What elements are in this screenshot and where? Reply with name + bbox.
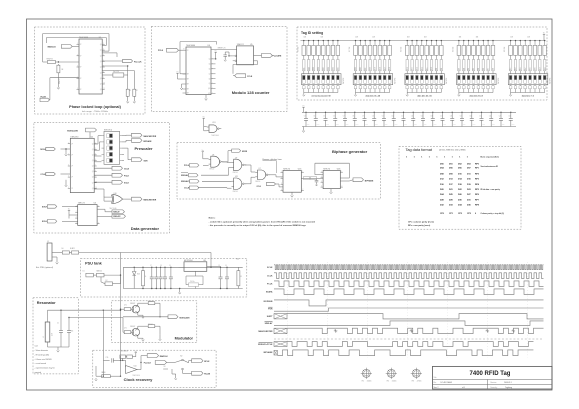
svg-text:MANCHESTER: MANCHESTER xyxy=(144,199,157,202)
svg-text:MODULATE: MODULATE xyxy=(67,129,78,132)
svg-text:BIPHASE: BIPHASE xyxy=(365,179,374,182)
svg-text:Q7: Q7 xyxy=(100,84,102,86)
svg-text:100n: 100n xyxy=(404,124,407,126)
svg-text:Revision:: Revision: xyxy=(491,382,498,384)
svg-text:ID-4: ID-4 xyxy=(525,67,527,70)
svg-text:MANCLK: MANCLK xyxy=(48,46,57,49)
svg-text:Q8: Q8 xyxy=(92,188,94,190)
svg-text:Clock recovery: Clock recovery xyxy=(124,377,153,382)
svg-text:CP: CP xyxy=(80,67,82,69)
svg-text:ID9: ID9 xyxy=(436,68,438,70)
svg-text:1k8: 1k8 xyxy=(321,37,324,39)
svg-text:CP: CP xyxy=(71,155,73,157)
svg-text:100n: 100n xyxy=(453,124,456,126)
svg-text:R16 1k8: R16 1k8 xyxy=(297,47,299,52)
svg-text:RPx = row parity (even): RPx = row parity (even) xyxy=(408,224,431,227)
svg-text:Tag ID setting: Tag ID setting xyxy=(301,31,323,35)
svg-text:1k8: 1k8 xyxy=(355,37,358,39)
svg-text:SDELAY: SDELAY xyxy=(265,322,274,325)
svg-text:74HC00: 74HC00 xyxy=(233,191,238,193)
svg-text:Q3: Q3 xyxy=(100,61,102,63)
svg-text:R18 1k8: R18 1k8 xyxy=(401,47,403,52)
svg-text:4.7k: 4.7k xyxy=(124,305,127,307)
svg-text:74HC00: 74HC00 xyxy=(255,181,260,183)
svg-text:MCP1804: MCP1804 xyxy=(184,260,192,262)
svg-text:74HC1G00: 74HC1G00 xyxy=(211,135,219,137)
svg-text:100n: 100n xyxy=(317,124,320,126)
svg-text:CP: CP xyxy=(71,177,73,179)
svg-text:PCLK: PCLK xyxy=(267,283,273,285)
svg-text:Q4: Q4 xyxy=(100,67,102,69)
svg-text:868 R3: 868 R3 xyxy=(148,301,153,303)
svg-text:MODSUB: MODSUB xyxy=(264,301,273,303)
svg-text:SW DIP-8: SW DIP-8 xyxy=(550,78,552,84)
svg-text:SW DIP-8: SW DIP-8 xyxy=(446,78,448,84)
svg-text:ID-2: ID-2 xyxy=(515,67,517,70)
svg-text:BLM21: BLM21 xyxy=(70,248,75,250)
svg-text:Coil:: Coil: xyxy=(35,346,39,348)
svg-text:Vcc: Vcc xyxy=(302,106,305,108)
svg-text:ID0: ID0 xyxy=(493,68,495,70)
svg-text:VN10LP: VN10LP xyxy=(130,303,135,305)
svg-text:ID4: ID4 xyxy=(473,68,475,70)
svg-text:U8: U8 xyxy=(212,154,214,156)
svg-text:CP: CP xyxy=(71,143,73,145)
svg-text:868 R4: 868 R4 xyxy=(148,324,153,326)
svg-text:ID22: ID22 xyxy=(360,67,362,70)
svg-text:MODULATE: MODULATE xyxy=(180,316,191,319)
svg-text:Vcc: Vcc xyxy=(202,150,205,152)
svg-text:Burst sequence (8x1): Burst sequence (8x1) xyxy=(481,156,500,159)
svg-text:SDATA: SDATA xyxy=(266,290,273,293)
svg-text:ID-3: ID-3 xyxy=(520,67,522,70)
svg-text:74HC74: 74HC74 xyxy=(323,168,330,170)
svg-text:BIPHASE: BIPHASE xyxy=(144,140,153,143)
svg-text:ID26: ID26 xyxy=(328,67,330,70)
svg-text:H3: H3 xyxy=(412,381,414,383)
svg-text:MR: MR xyxy=(187,74,189,76)
svg-text:R1: R1 xyxy=(129,90,131,92)
svg-text:ID13: ID13 xyxy=(417,67,419,70)
svg-text:ID7: ID7 xyxy=(459,68,461,70)
svg-text:PLLEN: PLLEN xyxy=(204,374,211,376)
svg-text:Data generator: Data generator xyxy=(131,226,160,231)
svg-text:Vcc: Vcc xyxy=(215,51,218,53)
svg-text:PLLCLK: PLLCLK xyxy=(134,61,142,63)
svg-text:74HC1G14: 74HC1G14 xyxy=(132,375,140,377)
svg-text:MRSET_IN: MRSET_IN xyxy=(218,48,226,50)
svg-text:SW DIP-8: SW DIP-8 xyxy=(343,78,345,84)
svg-text:Vcc: Vcc xyxy=(176,72,179,74)
svg-text:lock range: ~75kHz..135kHz: lock range: ~75kHz..135kHz xyxy=(82,110,108,113)
svg-text:C7: C7 xyxy=(150,265,152,267)
svg-text:1k8: 1k8 xyxy=(510,37,513,39)
svg-text:ID11: ID11 xyxy=(426,67,428,70)
svg-text:ID29: ID29 xyxy=(313,67,315,70)
svg-text:Q6: Q6 xyxy=(209,68,211,70)
svg-text:100n: 100n xyxy=(326,124,329,126)
svg-text:CCLK: CCLK xyxy=(247,76,253,78)
svg-text:100n: 100n xyxy=(443,124,446,126)
svg-text:C24: C24 xyxy=(508,116,511,118)
svg-text:100n: 100n xyxy=(356,124,359,126)
svg-text:Q5: Q5 xyxy=(92,171,94,173)
svg-text:PLLGATE: PLLGATE xyxy=(273,55,282,58)
svg-text:U16: U16 xyxy=(298,168,301,170)
svg-text:74HC4060: 74HC4060 xyxy=(186,45,195,47)
svg-text:CP: CP xyxy=(187,50,189,52)
svg-text:ID17: ID17 xyxy=(384,67,386,70)
svg-text:ID-8: ID-8 xyxy=(544,67,546,70)
svg-text:CPx = column parity (even): CPx = column parity (even) xyxy=(408,221,434,224)
svg-text:PLLCLK: PLLCLK xyxy=(144,362,152,364)
svg-text:ID5: ID5 xyxy=(468,68,470,70)
svg-text:Q5: Q5 xyxy=(100,72,102,74)
svg-text:100n: 100n xyxy=(424,124,427,126)
svg-text:Notes:: Notes: xyxy=(209,217,216,220)
svg-text:S2: S2 xyxy=(180,355,182,357)
svg-text:Vcc: Vcc xyxy=(543,33,546,35)
svg-text:C16: C16 xyxy=(430,116,433,118)
svg-text:100n: 100n xyxy=(463,124,466,126)
svg-text:Size: 2: Size: 2 xyxy=(434,387,439,389)
svg-text:C15: C15 xyxy=(106,357,109,359)
svg-text:CP: CP xyxy=(80,78,82,80)
svg-text:Q0: Q0 xyxy=(100,44,102,46)
svg-text:ID12: ID12 xyxy=(421,67,423,70)
svg-text:U06: U06 xyxy=(337,168,340,170)
svg-text:- the prescaler is normally se: - the prescaler is normally set to outpu… xyxy=(209,224,307,227)
svg-text:Q2: Q2 xyxy=(100,55,102,57)
svg-text:100n: 100n xyxy=(473,124,476,126)
svg-text:Q4: Q4 xyxy=(92,166,94,168)
svg-text:1k8: 1k8 xyxy=(527,37,530,39)
svg-text:74HC00: 74HC00 xyxy=(209,169,214,171)
svg-text:Vcc: Vcc xyxy=(135,351,138,353)
svg-text:R17 1k8: R17 1k8 xyxy=(349,47,351,52)
svg-text:data bits 7..0: data bits 7..0 xyxy=(522,95,535,98)
svg-text:MANCHESTER: MANCHESTER xyxy=(258,330,273,333)
svg-text:ID23: ID23 xyxy=(355,67,357,70)
svg-text:ID18: ID18 xyxy=(379,67,381,70)
svg-text:D1: D1 xyxy=(83,271,85,273)
svg-text:ID31: ID31 xyxy=(303,67,305,70)
svg-text:SCLK: SCLK xyxy=(124,183,130,185)
svg-text:MR: MR xyxy=(187,79,189,81)
svg-text:SDELAY+PCLK: SDELAY+PCLK xyxy=(258,343,273,346)
svg-text:C19: C19 xyxy=(460,116,463,118)
svg-text:Q7: Q7 xyxy=(92,182,94,184)
svg-text:SDELAY2: SDELAY2 xyxy=(181,180,190,183)
svg-text:ID21: ID21 xyxy=(365,67,367,70)
svg-text:C21: C21 xyxy=(479,116,482,118)
svg-text:1k8: 1k8 xyxy=(424,37,427,39)
svg-text:MR: MR xyxy=(187,84,189,86)
svg-text:DC-4FC-RA-03: DC-4FC-RA-03 xyxy=(441,381,453,384)
svg-text:SCLK: SCLK xyxy=(42,221,48,223)
svg-text:SW DIP-8: SW DIP-8 xyxy=(395,78,397,84)
svg-text:ID15: ID15 xyxy=(407,67,409,70)
svg-text:BIPHASE: BIPHASE xyxy=(264,351,274,354)
svg-text:PCLK: PCLK xyxy=(158,50,164,52)
svg-text:3n0 C10: 3n0 C10 xyxy=(113,71,119,73)
svg-text:100n: 100n xyxy=(492,124,495,126)
svg-text:ID28: ID28 xyxy=(318,67,320,70)
svg-text:Q4: Q4 xyxy=(209,59,211,61)
svg-text:MANCHESTER: MANCHESTER xyxy=(144,135,157,138)
svg-text:R19 1k8: R19 1k8 xyxy=(452,47,454,52)
svg-text:74HC1G86: 74HC1G86 xyxy=(109,208,117,210)
svg-text:- 89 windings (4B): - 89 windings (4B) xyxy=(35,354,50,356)
svg-text:Q9: Q9 xyxy=(209,83,211,85)
svg-text:MODE: MODE xyxy=(242,151,248,153)
svg-text:Ext. PSU (optional): Ext. PSU (optional) xyxy=(36,266,53,269)
svg-text:Q0: Q0 xyxy=(92,143,94,145)
svg-text:100n C2: 100n C2 xyxy=(59,79,61,84)
svg-text:SW DIP-4: SW DIP-4 xyxy=(104,129,112,131)
svg-text:R20 1k8: R20 1k8 xyxy=(504,47,506,52)
svg-text:ID-5: ID-5 xyxy=(530,67,532,70)
svg-text:C23: C23 xyxy=(499,116,502,118)
svg-text:Q8: Q8 xyxy=(100,89,102,91)
svg-text:ID20: ID20 xyxy=(370,67,372,70)
svg-text:BZX: BZX xyxy=(137,274,140,276)
svg-text:Q6: Q6 xyxy=(100,78,102,80)
svg-text:74HC74: 74HC74 xyxy=(283,168,290,170)
svg-text:U13: U13 xyxy=(212,122,215,124)
svg-text:ID8: ID8 xyxy=(441,68,443,70)
svg-text:100n: 100n xyxy=(336,124,339,126)
svg-text:Prescaler: Prescaler xyxy=(135,146,153,151)
svg-text:ID2: ID2 xyxy=(483,68,485,70)
svg-text:ID bit data + row parity: ID bit data + row parity xyxy=(481,188,500,191)
svg-text:Modulo 128 counter: Modulo 128 counter xyxy=(232,90,270,95)
svg-text:C14 1u: C14 1u xyxy=(190,281,195,283)
svg-text:C22: C22 xyxy=(489,116,492,118)
svg-text:Q7: Q7 xyxy=(209,73,211,75)
svg-text:L1: L1 xyxy=(43,336,45,338)
svg-text:H2: H2 xyxy=(387,381,389,383)
svg-text:Version/customer ID: Version/customer ID xyxy=(481,165,499,168)
svg-text:100n: 100n xyxy=(502,124,505,126)
svg-text:4.7mm: 4.7mm xyxy=(417,381,422,383)
svg-text:C15: C15 xyxy=(421,116,424,118)
svg-text:100n: 100n xyxy=(307,124,310,126)
svg-text:Column parity + stop bit (0): Column parity + stop bit (0) xyxy=(481,212,505,215)
svg-text:ID14: ID14 xyxy=(412,67,414,70)
svg-text:Q11: Q11 xyxy=(208,93,211,95)
svg-text:Vcc: Vcc xyxy=(68,209,71,211)
svg-text:required: required xyxy=(35,372,42,374)
svg-text:3.2mm: 3.2mm xyxy=(392,381,397,383)
svg-text:Vcc: Vcc xyxy=(203,117,206,119)
svg-text:100n: 100n xyxy=(414,124,417,126)
svg-text:VN10LP: VN10LP xyxy=(130,326,135,328)
svg-text:Biphase generator: Biphase generator xyxy=(332,149,368,154)
svg-text:C6: C6 xyxy=(225,265,227,267)
svg-text:PCLK: PCLK xyxy=(124,176,130,178)
svg-text:Resonator: Resonator xyxy=(37,301,56,305)
svg-text:ID24: ID24 xyxy=(337,67,339,70)
svg-text:- experimentation may be: - experimentation may be xyxy=(35,367,55,370)
svg-text:S3: S3 xyxy=(164,366,166,368)
svg-text:- 0.4mm wire SWG26: - 0.4mm wire SWG26 xyxy=(35,359,52,361)
svg-text:C20: C20 xyxy=(469,116,472,118)
svg-text:1mH: 1mH xyxy=(52,333,54,336)
svg-text:Q5: Q5 xyxy=(209,64,211,66)
svg-text:(32 bits, MSB first; D00 = MSB: (32 bits, MSB first; D00 = MSB) xyxy=(439,148,466,151)
svg-text:U11: U11 xyxy=(235,176,238,178)
svg-text:Tag data format: Tag data format xyxy=(406,148,433,152)
svg-text:U14: U14 xyxy=(134,366,137,368)
svg-text:data bits 15..8: data bits 15..8 xyxy=(469,95,483,98)
svg-text:1k8: 1k8 xyxy=(372,37,375,39)
svg-text:POR: POR xyxy=(268,309,273,311)
svg-text:MCLK: MCLK xyxy=(204,361,210,363)
svg-text:Q3: Q3 xyxy=(92,160,94,162)
svg-text:CP: CP xyxy=(71,166,73,168)
svg-text:Q1: Q1 xyxy=(92,149,94,151)
svg-text:ID30: ID30 xyxy=(308,67,310,70)
svg-text:ID19: ID19 xyxy=(375,67,377,70)
svg-text:- round wound: - round wound xyxy=(35,363,47,365)
svg-text:U9: U9 xyxy=(235,157,237,159)
svg-text:CP: CP xyxy=(71,188,73,190)
svg-text:Q10: Q10 xyxy=(208,88,211,90)
svg-text:C13: C13 xyxy=(401,116,404,118)
svg-text:74HC590: 74HC590 xyxy=(70,136,78,138)
svg-text:100n: 100n xyxy=(395,124,398,126)
svg-text:U3: U3 xyxy=(94,203,96,205)
svg-text:C5: C5 xyxy=(218,265,220,267)
svg-text:Q6: Q6 xyxy=(92,177,94,179)
svg-text:2009-07-1: 2009-07-1 xyxy=(504,382,512,384)
svg-text:of 4: of 4 xyxy=(462,387,465,389)
svg-text:- switch S2 is optional; prima: - switch S2 is optional; primarily when … xyxy=(209,220,316,223)
svg-text:U8: U8 xyxy=(203,260,205,262)
svg-text:data bits 31..24: data bits 31..24 xyxy=(366,95,381,98)
svg-text:74HC74: 74HC74 xyxy=(237,44,244,46)
svg-text:C17: C17 xyxy=(440,116,443,118)
svg-text:MR: MR xyxy=(187,89,189,91)
svg-text:1k8: 1k8 xyxy=(304,37,307,39)
svg-text:C5: C5 xyxy=(323,116,325,118)
svg-text:ID27: ID27 xyxy=(323,67,325,70)
svg-text:7400 RFID Tag: 7400 RFID Tag xyxy=(470,371,511,377)
svg-text:1k8: 1k8 xyxy=(476,37,479,39)
svg-text:C3: C3 xyxy=(304,116,306,118)
svg-text:SHIFT: SHIFT xyxy=(267,316,274,318)
svg-text:4.7k: 4.7k xyxy=(124,328,127,330)
svg-text:C4: C4 xyxy=(313,116,315,118)
svg-text:ID3: ID3 xyxy=(478,68,480,70)
svg-text:U5: U5 xyxy=(250,44,252,46)
svg-text:C8: C8 xyxy=(160,265,162,267)
svg-text:100n: 100n xyxy=(346,124,349,126)
svg-text:Q8: Q8 xyxy=(209,78,211,80)
svg-text:100n: 100n xyxy=(385,124,388,126)
svg-text:version/customer ID: version/customer ID xyxy=(311,95,331,98)
svg-text:ID16: ID16 xyxy=(389,67,391,70)
svg-text:C9: C9 xyxy=(362,116,364,118)
svg-text:U4: U4 xyxy=(208,45,210,47)
svg-text:C11: C11 xyxy=(382,116,385,118)
svg-text:100n: 100n xyxy=(365,124,368,126)
svg-text:D6: D6 xyxy=(62,248,64,250)
svg-text:SW DIP-8: SW DIP-8 xyxy=(498,78,500,84)
svg-text:CP: CP xyxy=(80,55,82,57)
svg-text:PCLK: PCLK xyxy=(184,165,190,167)
svg-text:U10: U10 xyxy=(114,193,117,195)
svg-text:ID25: ID25 xyxy=(333,67,335,70)
svg-text:100n: 100n xyxy=(482,124,485,126)
svg-text:Modulator: Modulator xyxy=(175,337,194,341)
svg-text:ID10: ID10 xyxy=(431,67,433,70)
svg-text:HSW R4: HSW R4 xyxy=(47,58,53,60)
svg-text:100n: 100n xyxy=(375,124,378,126)
svg-text:R2: R2 xyxy=(136,90,138,92)
svg-text:ID1: ID1 xyxy=(488,68,490,70)
svg-text:100n: 100n xyxy=(434,124,437,126)
svg-text:U2: U2 xyxy=(91,136,93,138)
svg-text:SCLK: SCLK xyxy=(267,267,273,269)
svg-text:RAWCLK: RAWCLK xyxy=(160,355,169,358)
svg-text:- 50mm diameter: - 50mm diameter xyxy=(35,349,49,352)
svg-text:C12: C12 xyxy=(391,116,394,118)
svg-text:U7: U7 xyxy=(259,168,261,170)
svg-text:74HC74: 74HC74 xyxy=(78,203,85,205)
svg-text:1k8: 1k8 xyxy=(407,37,410,39)
svg-text:C7: C7 xyxy=(343,116,345,118)
svg-text:C9: C9 xyxy=(169,265,171,267)
svg-text:C14: C14 xyxy=(411,116,414,118)
svg-text:3.2mm: 3.2mm xyxy=(367,381,372,383)
svg-text:Vdd: Vdd xyxy=(236,259,239,261)
svg-text:CP: CP xyxy=(80,44,82,46)
svg-text:C6: C6 xyxy=(333,116,335,118)
svg-text:100n: 100n xyxy=(512,124,515,126)
svg-text:D2: D2 xyxy=(106,280,108,282)
svg-text:CCLK: CCLK xyxy=(40,174,46,176)
svg-text:data bits 23..16: data bits 23..16 xyxy=(417,95,432,98)
svg-text:CCLK: CCLK xyxy=(184,188,190,190)
svg-text:R9: R9 xyxy=(240,276,242,278)
svg-text:MR: MR xyxy=(187,93,189,95)
svg-text:C1: C1 xyxy=(57,323,59,325)
svg-text:Q1: Q1 xyxy=(100,50,102,52)
svg-text:Beware: glitches here: Beware: glitches here xyxy=(263,158,283,161)
svg-text:Q2: Q2 xyxy=(92,155,94,157)
svg-text:GCLK: GCLK xyxy=(124,169,130,171)
svg-text:CP: CP xyxy=(80,89,82,91)
svg-text:74HC00: 74HC00 xyxy=(233,172,238,174)
svg-text:ID6: ID6 xyxy=(463,68,465,70)
svg-text:3n3: 3n3 xyxy=(71,331,74,333)
svg-text:SDELAY: SDELAY xyxy=(181,174,189,177)
svg-text:H1: H1 xyxy=(362,381,364,383)
svg-text:C10: C10 xyxy=(372,116,375,118)
svg-text:Phase locked loop (optional): Phase locked loop (optional) xyxy=(69,105,121,109)
svg-text:J1: J1 xyxy=(47,241,49,243)
svg-text:ID-6: ID-6 xyxy=(535,67,537,70)
svg-text:C8: C8 xyxy=(352,116,354,118)
svg-text:ID-7: ID-7 xyxy=(539,67,541,70)
svg-text:ID-1: ID-1 xyxy=(510,67,512,70)
svg-text:1k8: 1k8 xyxy=(459,37,462,39)
svg-text:Yagsburg: Yagsburg xyxy=(505,386,512,389)
svg-text:CCLK: CCLK xyxy=(267,275,273,277)
svg-text:PSU tank: PSU tank xyxy=(85,261,103,265)
